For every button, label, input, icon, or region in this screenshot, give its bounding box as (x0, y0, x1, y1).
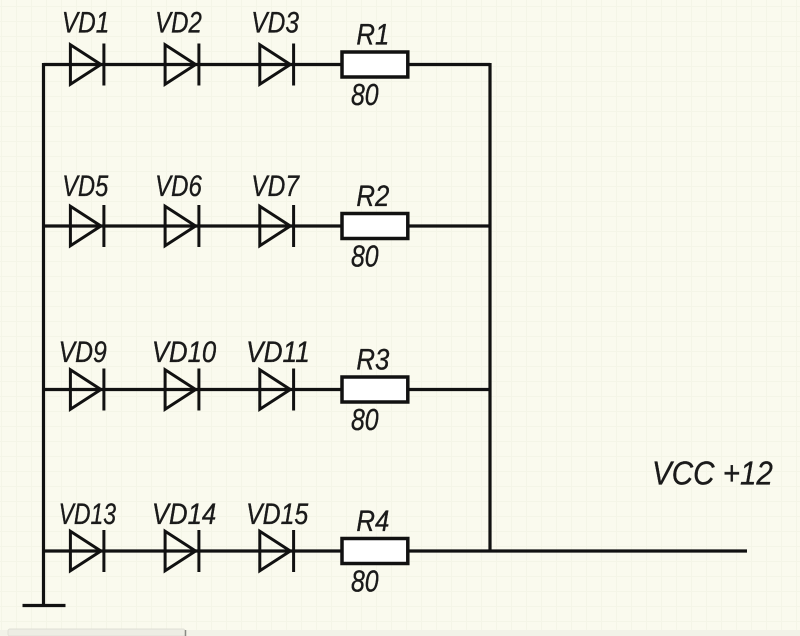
svg-text:VD9: VD9 (59, 336, 107, 369)
svg-text:R3: R3 (356, 344, 389, 377)
svg-text:VD14: VD14 (152, 498, 216, 531)
svg-text:R1: R1 (356, 19, 389, 52)
svg-text:VD13: VD13 (59, 498, 117, 531)
svg-text:R2: R2 (356, 180, 389, 213)
svg-text:VD2: VD2 (155, 7, 202, 40)
svg-text:VD5: VD5 (62, 170, 108, 203)
svg-text:VD1: VD1 (62, 7, 109, 40)
svg-text:VD6: VD6 (155, 170, 202, 203)
svg-text:VD7: VD7 (251, 170, 300, 203)
svg-text:R4: R4 (356, 505, 389, 538)
svg-text:VD11: VD11 (246, 336, 310, 369)
svg-text:VD10: VD10 (152, 336, 217, 369)
svg-text:80: 80 (351, 240, 379, 274)
svg-text:80: 80 (351, 403, 379, 437)
svg-text:80: 80 (351, 78, 379, 112)
svg-text:80: 80 (351, 565, 379, 599)
svg-text:VCC +12: VCC +12 (652, 455, 773, 492)
svg-text:VD3: VD3 (251, 7, 299, 40)
svg-text:VD15: VD15 (246, 498, 308, 531)
